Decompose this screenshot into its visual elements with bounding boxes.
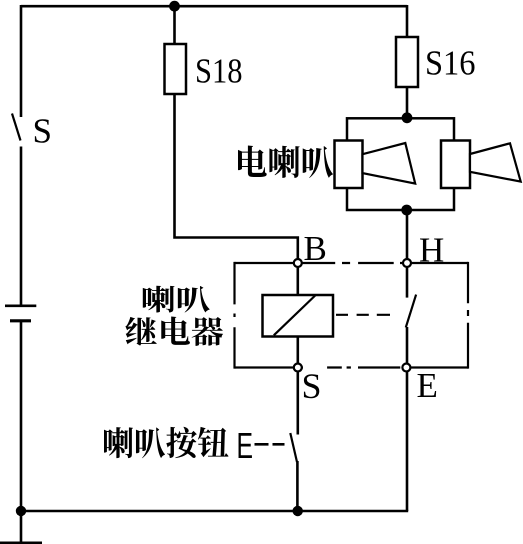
horn HA1 bell <box>363 143 416 184</box>
svg-text:S18: S18 <box>195 52 243 91</box>
horn HA2 bell <box>470 143 521 181</box>
relay coil to contact dashed link <box>336 314 390 316</box>
node ground bus button junction <box>293 506 303 516</box>
ground symbol bar <box>0 542 42 544</box>
relay contact lever <box>406 295 416 328</box>
wire left branch upper (to switch S) <box>20 5 23 117</box>
wire terminal B to relay coil <box>296 263 299 295</box>
svg-text:S: S <box>302 366 322 406</box>
relay coil diagonal <box>274 296 315 336</box>
wire horn button to ground bus <box>296 461 299 511</box>
svg-text:E: E <box>237 425 254 466</box>
relay coil K body <box>263 295 334 337</box>
switch S lever <box>12 114 21 141</box>
label ji-dian-qi (horn relay line 2) <box>125 317 223 346</box>
wire terminal S down to horn button <box>296 368 299 435</box>
battery GB long plate <box>5 304 36 307</box>
relay box left edge with center-line dot <box>233 262 235 369</box>
wire S16 branch: top corner down through fuse to horn box <box>406 5 409 118</box>
wire bottom ground bus <box>21 510 408 513</box>
battery GB short plate <box>10 319 31 322</box>
node top bus / S18 junction <box>169 1 180 12</box>
horn HA2 driver <box>441 141 470 189</box>
svg-text:H: H <box>419 231 444 270</box>
label la-ba (horn relay line 1) <box>143 286 210 313</box>
svg-text:E: E <box>417 366 438 405</box>
node ground bus left junction <box>16 506 26 516</box>
horn button lever <box>290 433 297 462</box>
relay box top edge: solid, dash-dot, solid <box>235 262 469 264</box>
terminal B <box>294 259 302 267</box>
horn button dash link E- - <box>255 443 285 446</box>
wire terminal H to relay contact <box>406 263 409 298</box>
label la-ba-an-niu (horn button) <box>104 427 229 458</box>
node horn box bottom junction <box>401 205 412 216</box>
horn HA1 driver <box>335 141 363 189</box>
horn assembly box <box>347 118 454 210</box>
wire terminal E down to ground bus <box>406 368 409 512</box>
wire battery to ground bus <box>20 322 23 542</box>
relay box right edge with center-line dot <box>467 262 469 369</box>
terminal S <box>294 364 302 372</box>
wire horn box bottom to terminal H <box>406 210 409 263</box>
relay box bottom edge: solid, dash-dot, solid <box>235 366 469 368</box>
node S16 / horn box junction <box>402 112 413 123</box>
svg-text:S16: S16 <box>425 44 476 83</box>
wire relay contact to terminal E <box>406 327 409 368</box>
fuse S18 body <box>165 44 187 94</box>
wire top bus <box>21 5 407 8</box>
terminal H <box>403 259 411 267</box>
wire relay coil to terminal S <box>296 337 299 368</box>
svg-text:B: B <box>304 229 327 268</box>
terminal E <box>402 364 410 372</box>
wire switch S to battery <box>20 147 23 306</box>
wire S18 branch: top bus through fuse down then right to terminal B <box>175 6 298 263</box>
svg-text:S: S <box>33 112 52 151</box>
label dian-la-ba (electric horn) <box>238 146 333 179</box>
fuse S16 body <box>396 37 418 87</box>
